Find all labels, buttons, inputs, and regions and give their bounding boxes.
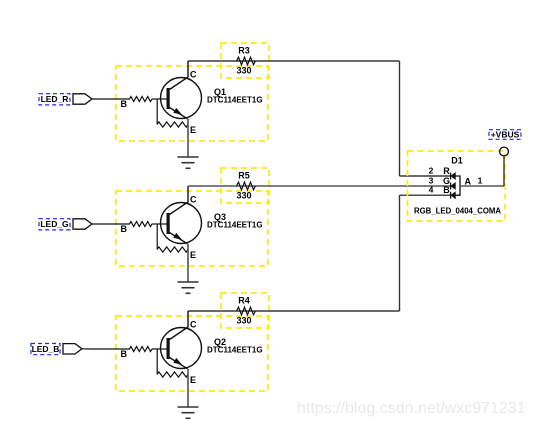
svg-text:+VBUS: +VBUS [491, 130, 520, 140]
svg-text:R3: R3 [238, 46, 250, 56]
svg-text:2: 2 [429, 166, 434, 176]
svg-text:330: 330 [236, 191, 251, 201]
svg-text:DTC114EET1G: DTC114EET1G [207, 96, 263, 105]
svg-text:R: R [443, 166, 450, 176]
svg-text:DTC114EET1G: DTC114EET1G [207, 221, 263, 230]
svg-text:DTC114EET1G: DTC114EET1G [207, 346, 263, 355]
svg-text:RGB_LED_0404_COMA: RGB_LED_0404_COMA [414, 207, 501, 216]
svg-text:1: 1 [478, 176, 483, 186]
svg-text:LED_R: LED_R [41, 94, 69, 104]
svg-text:330: 330 [236, 316, 251, 326]
svg-text:D1: D1 [451, 156, 463, 166]
svg-text:R4: R4 [238, 296, 250, 306]
svg-text:LED_B: LED_B [32, 344, 60, 354]
svg-text:330: 330 [236, 66, 251, 76]
svg-text:R5: R5 [238, 171, 250, 181]
svg-text:A: A [465, 177, 472, 187]
svg-text:B: B [443, 185, 450, 195]
svg-text:https://blog.csdn.net/wxc97123: https://blog.csdn.net/wxc971231 [297, 400, 526, 417]
svg-text:4: 4 [429, 185, 434, 195]
svg-text:LED_G: LED_G [40, 219, 69, 229]
